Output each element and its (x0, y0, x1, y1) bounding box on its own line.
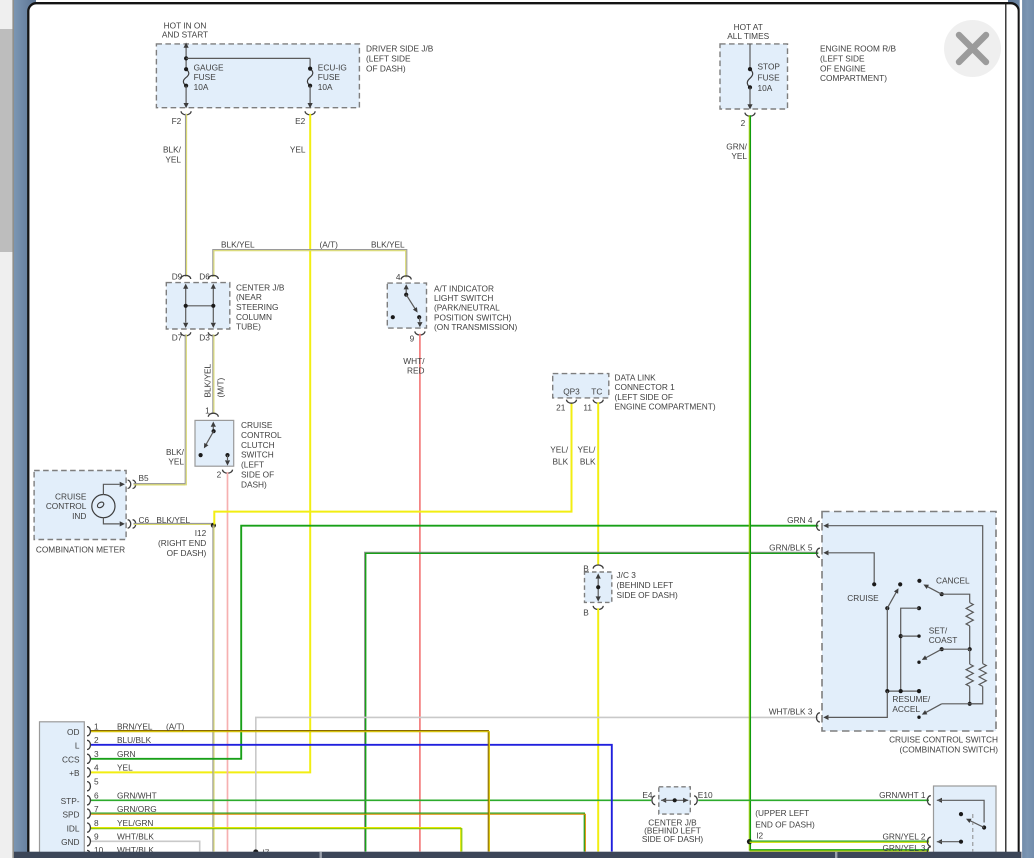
svg-text:GRN 4: GRN 4 (787, 515, 813, 525)
connector F2 (181, 111, 191, 115)
wire pin3 internal riser (828, 691, 888, 717)
svg-text:QP3: QP3 (563, 386, 580, 396)
wire BLK/YEL C6 to I12 (134, 522, 214, 524)
svg-text:ALL TIMES: ALL TIMES (727, 31, 769, 41)
browser scrollbar track (0, 0, 13, 858)
connector pin 4 cruise switch (816, 521, 819, 530)
junction block DRIVER SIDE J/B (156, 44, 359, 108)
fuse STOP FUSE 10A (749, 44, 751, 69)
svg-text:GAUGE: GAUGE (194, 62, 224, 72)
connector pin 2 clutch switch (223, 470, 233, 474)
connector ECM pin 1 (87, 727, 90, 736)
connector DATA LINK CONNECTOR 1 (553, 374, 609, 398)
resistor R2 (966, 664, 973, 686)
wire YEL/BLK J/C3 to bottom (597, 608, 599, 851)
svg-text:E10: E10 (698, 790, 713, 800)
svg-text:2: 2 (94, 735, 99, 745)
svg-text:DATA LINK: DATA LINK (615, 372, 657, 382)
svg-text:SET/: SET/ (929, 625, 948, 635)
switch A/T INDICATOR LIGHT SWITCH (387, 283, 426, 328)
wire internal E4 to E10 (661, 799, 688, 801)
wire internal pin5 to cruise contact (828, 553, 875, 585)
svg-text:TC: TC (591, 386, 602, 396)
svg-text:(A/T): (A/T) (166, 721, 185, 731)
wire BLK/YEL D7 to B5 (134, 334, 186, 483)
wire BLK/YEL B5 to F2 wire (134, 483, 186, 485)
connector E2 (305, 111, 315, 115)
wire R2 bottom row (969, 686, 971, 703)
connector pin 3 cruise switch (816, 713, 819, 722)
svg-text:4: 4 (396, 272, 401, 282)
svg-text:OF DASH): OF DASH) (167, 548, 207, 558)
svg-text:B: B (583, 607, 589, 617)
svg-text:(COMBINATION SWITCH): (COMBINATION SWITCH) (900, 745, 999, 755)
svg-text:IDL: IDL (67, 823, 80, 833)
wire internal pin1 to switch (937, 800, 984, 822)
svg-text:OD: OD (67, 727, 79, 737)
svg-text:GND: GND (61, 837, 79, 847)
svg-text:GRN: GRN (117, 749, 135, 759)
svg-text:2: 2 (217, 470, 222, 480)
svg-text:CRUISE: CRUISE (241, 420, 273, 430)
wire WHT/BLK pin9 (90, 841, 200, 851)
svg-text:(RIGHT END: (RIGHT END (158, 538, 206, 548)
wire WHT/RED A/T switch to bottom (419, 334, 421, 852)
svg-text:BLK: BLK (580, 456, 596, 466)
svg-text:BLK/YEL: BLK/YEL (371, 239, 405, 249)
meter COMBINATION METER (34, 471, 126, 540)
connector D9 (181, 275, 191, 279)
svg-text:D7: D7 (172, 333, 183, 343)
wire BLK/YEL I12 to bottom (212, 525, 214, 851)
lamp CRUISE CONTROL IND (92, 495, 115, 518)
connector pin 1 right (927, 796, 930, 805)
connector ECM (box) (40, 722, 85, 858)
wire BLK/YEL D6 branch to A/T switch (213, 250, 407, 278)
wire lamp to B5 (103, 484, 119, 495)
svg-text:10A: 10A (194, 82, 209, 92)
svg-text:YEL: YEL (731, 151, 747, 161)
svg-text:COMPARTMENT): COMPARTMENT) (820, 73, 887, 83)
fuse block ENGINE ROOM R/B (720, 44, 788, 109)
divider dashed (972, 814, 974, 852)
svg-text:1: 1 (94, 721, 99, 731)
svg-text:2: 2 (741, 118, 746, 128)
wire GRN/BLK cruise pin5 to bottom (365, 552, 819, 851)
wire GRN pin3 to cruise switch pin4 (90, 526, 818, 759)
svg-text:A/T INDICATOR: A/T INDICATOR (434, 283, 494, 293)
connector pin 2 stop fuse (745, 113, 755, 117)
svg-text:CRUISE: CRUISE (847, 593, 879, 603)
node I2 (747, 839, 752, 844)
svg-text:OF DASH): OF DASH) (366, 63, 406, 73)
switch element CRUISE (885, 606, 889, 610)
wire GRN/WHT pin6 to E4 (90, 799, 651, 801)
svg-text:(PARK/NEUTRAL: (PARK/NEUTRAL (434, 303, 500, 313)
wire bottom contact row (887, 690, 919, 692)
switch CRUISE CONTROL SWITCH (combination switch) (822, 512, 996, 732)
switch CRUISE CONTROL CLUTCH SWITCH (195, 420, 234, 466)
connector B5 (128, 480, 131, 488)
connector ECM pin 9 (87, 837, 90, 846)
fuse GAUGE FUSE 10A (185, 47, 187, 69)
switch element SET/COAST (940, 647, 944, 651)
wire WHT/BLK pin10 (90, 854, 256, 856)
svg-text:(A/T): (A/T) (320, 239, 339, 249)
svg-text:LIGHT SWITCH: LIGHT SWITCH (434, 293, 493, 303)
svg-text:YEL/GRN: YEL/GRN (117, 818, 153, 828)
connector (combination switch harness) (934, 786, 997, 858)
svg-text:ECU-IG: ECU-IG (318, 62, 347, 72)
svg-text:10A: 10A (318, 82, 333, 92)
connector pin 9 A/T switch (415, 331, 425, 335)
junction block CENTER J/B (E4/E10) (659, 787, 691, 814)
svg-text:YEL: YEL (168, 457, 184, 467)
svg-text:(LEFT SIDE: (LEFT SIDE (366, 53, 411, 63)
svg-text:D6: D6 (199, 271, 210, 281)
svg-text:6: 6 (94, 791, 99, 801)
wire internal D9-D7 leg (185, 289, 187, 323)
svg-text:FUSE: FUSE (194, 72, 217, 82)
connector ECM pin 2 (87, 740, 90, 749)
wire WHT/BLK cruise pin3 to I7 (256, 717, 819, 851)
svg-text:GRN/WHT: GRN/WHT (117, 791, 157, 801)
svg-text:GRN/ORG: GRN/ORG (117, 804, 157, 814)
switch element RESUME/ACCEL (925, 704, 942, 713)
svg-text:(UPPER LEFT: (UPPER LEFT (755, 808, 809, 818)
svg-text:(BEHIND LEFT: (BEHIND LEFT (617, 580, 674, 590)
svg-text:STOP: STOP (758, 61, 781, 71)
svg-text:SIDE OF: SIDE OF (241, 470, 274, 480)
svg-text:IND: IND (72, 511, 86, 521)
switch element right connector (982, 825, 986, 829)
svg-text:L: L (75, 741, 80, 751)
wire PNK clutch switch to bottom (227, 472, 229, 852)
left gutter strip (14, 0, 36, 858)
close button (944, 20, 1001, 77)
connector D3 (208, 332, 218, 336)
wire internal D6-D3 leg (212, 289, 214, 323)
node I12 (211, 523, 216, 528)
wire resistor to bottom node (970, 686, 983, 703)
status bar (14, 852, 1022, 858)
svg-text:D9: D9 (172, 271, 183, 281)
svg-text:CRUISE: CRUISE (55, 491, 87, 501)
svg-text:9: 9 (410, 334, 415, 344)
svg-text:COMBINATION METER: COMBINATION METER (36, 545, 125, 555)
svg-text:(LEFT: (LEFT (241, 460, 264, 470)
wire BLK/YEL D3 to clutch switch (212, 334, 214, 413)
svg-text:COAST: COAST (929, 635, 958, 645)
svg-text:YEL/: YEL/ (578, 445, 597, 455)
svg-text:YEL: YEL (165, 154, 181, 164)
svg-text:10A: 10A (758, 83, 773, 93)
browser scrollbar thumb (0, 29, 13, 252)
svg-text:+B: +B (69, 768, 80, 778)
wire BLU/BLK pin2 to bottom (90, 745, 612, 852)
connector pin 4 A/T switch (401, 276, 411, 280)
svg-text:POSITION SWITCH): POSITION SWITCH) (434, 312, 512, 322)
wire BRN/YEL pin1 to bottom (90, 731, 488, 852)
svg-text:E2: E2 (295, 116, 306, 126)
fuse ECU-IG FUSE 10A (309, 58, 311, 68)
connector ECM pin 3 (87, 754, 90, 763)
wire lamp to C6 (103, 518, 119, 524)
connector C6 (128, 520, 131, 528)
svg-text:CONTROL: CONTROL (241, 430, 282, 440)
svg-text:WHT/BLK 3: WHT/BLK 3 (769, 706, 813, 716)
svg-text:RED: RED (407, 366, 425, 376)
wire contact L-path (917, 606, 921, 610)
svg-text:ACCEL: ACCEL (892, 704, 920, 714)
svg-text:GRN/YEL 2: GRN/YEL 2 (882, 832, 925, 842)
svg-text:5: 5 (94, 776, 99, 786)
node I7 (253, 849, 258, 854)
svg-text:STEERING: STEERING (236, 302, 278, 312)
connector ECM pin 8 (87, 823, 90, 832)
svg-text:CENTER J/B: CENTER J/B (236, 282, 285, 292)
svg-text:ENGINE ROOM R/B: ENGINE ROOM R/B (820, 44, 897, 54)
resistor R far-right (979, 664, 986, 687)
svg-text:STP-: STP- (61, 796, 80, 806)
svg-text:1: 1 (205, 405, 210, 415)
inner frame line (1005, 4, 1007, 853)
resistor R1 (966, 603, 973, 626)
svg-text:(M/T): (M/T) (216, 377, 226, 397)
connector pin 1 clutch switch (208, 413, 218, 417)
wire link gauge to ecu-ig (186, 57, 310, 59)
wire GRN/ORG pin7 to bottom (90, 813, 584, 851)
svg-text:SIDE OF DASH): SIDE OF DASH) (642, 834, 704, 844)
svg-text:8: 8 (94, 818, 99, 828)
svg-text:BLK/: BLK/ (166, 447, 185, 457)
svg-text:F2: F2 (172, 116, 182, 126)
svg-text:ENGINE COMPARTMENT): ENGINE COMPARTMENT) (615, 402, 716, 412)
svg-text:GRN/: GRN/ (726, 141, 747, 151)
connector pin 11 (593, 400, 603, 404)
svg-text:3: 3 (94, 749, 99, 759)
svg-text:D3: D3 (199, 333, 210, 343)
wire BLK/YEL F2 to D9 (185, 114, 187, 277)
svg-text:(ON TRANSMISSION): (ON TRANSMISSION) (434, 322, 518, 332)
svg-text:COLUMN: COLUMN (236, 312, 272, 322)
junction block CENTER J/B (near steering column tube) (166, 283, 230, 329)
connector E10 (683, 798, 688, 803)
wire internal pin2 (937, 841, 961, 843)
svg-text:11: 11 (583, 402, 592, 412)
svg-text:BLK/YEL: BLK/YEL (203, 363, 213, 397)
switch element A/T (404, 284, 409, 289)
wire internal pin4 to resistor chain (828, 526, 983, 664)
svg-text:CCS: CCS (62, 755, 80, 765)
svg-text:AND START: AND START (162, 30, 208, 40)
connector ECM pin 6 (87, 796, 90, 805)
connector pin 5 cruise switch (816, 548, 819, 557)
right white sliver (1020, 0, 1022, 858)
wire GRN/YEL stop fuse to I2 (748, 115, 750, 851)
svg-text:GRN/BLK 5: GRN/BLK 5 (769, 542, 813, 552)
svg-text:I12: I12 (195, 528, 207, 538)
svg-text:21: 21 (556, 402, 566, 412)
svg-text:(LEFT SIDE: (LEFT SIDE (820, 53, 865, 63)
wire GRN/YEL I2 to connector pin 2 (750, 840, 930, 842)
svg-text:SPD: SPD (62, 809, 79, 819)
wire YEL/BLK pin 11 to J/C3 (597, 402, 599, 565)
svg-text:GRN/YEL 3: GRN/YEL 3 (882, 843, 925, 853)
svg-text:BLU/BLK: BLU/BLK (117, 735, 152, 745)
svg-text:9: 9 (94, 832, 99, 842)
svg-text:BRN/YEL: BRN/YEL (117, 721, 153, 731)
svg-text:DASH): DASH) (241, 479, 267, 489)
wire YEL/GRN pin8 to bottom (90, 828, 461, 852)
svg-text:YEL: YEL (117, 763, 133, 773)
right gutter strip (1008, 0, 1034, 858)
svg-text:GRN/WHT 1: GRN/WHT 1 (879, 790, 926, 800)
wire R1 to set/coast node (969, 626, 971, 649)
connector pin 21 (567, 400, 577, 404)
svg-text:I2: I2 (756, 830, 763, 840)
wire cruise pivot down (886, 608, 888, 691)
svg-text:SIDE OF DASH): SIDE OF DASH) (617, 590, 679, 600)
svg-text:CLUTCH: CLUTCH (241, 440, 275, 450)
wire GRN/WHT E10 to connector pin 1 (698, 799, 929, 801)
svg-text:END OF DASH): END OF DASH) (755, 819, 815, 829)
wire cancel pivot to resistor R1 (942, 594, 970, 602)
wire YEL I12 to QP3 (214, 403, 571, 525)
svg-text:BLK/YEL: BLK/YEL (221, 239, 255, 249)
svg-text:DRIVER SIDE J/B: DRIVER SIDE J/B (366, 44, 434, 54)
svg-text:SWITCH: SWITCH (241, 450, 274, 460)
svg-text:7: 7 (94, 804, 99, 814)
wire YEL E2 to pin +B (90, 114, 310, 773)
connector D7 (181, 332, 191, 336)
connector ECM pin 7 (87, 809, 90, 818)
svg-text:BLK/: BLK/ (163, 145, 182, 155)
switch element clutch (211, 422, 216, 427)
svg-text:WHT/BLK: WHT/BLK (117, 832, 154, 842)
connector D6 (208, 275, 218, 279)
svg-text:(LEFT SIDE OF: (LEFT SIDE OF (615, 392, 673, 402)
wire GRN/YEL to connector pin 3 (750, 849, 930, 851)
svg-text:BLK/YEL: BLK/YEL (156, 515, 190, 525)
svg-text:YEL: YEL (290, 145, 306, 155)
svg-text:(NEAR: (NEAR (236, 292, 262, 302)
svg-text:CANCEL: CANCEL (936, 575, 970, 585)
svg-text:4: 4 (94, 763, 99, 773)
connector pin 3 right (927, 847, 930, 856)
svg-text:B5: B5 (139, 473, 150, 483)
svg-text:BLK: BLK (553, 456, 569, 466)
switch element CANCEL (917, 579, 921, 583)
svg-text:CONNECTOR 1: CONNECTOR 1 (615, 382, 676, 392)
svg-text:FUSE: FUSE (758, 72, 781, 82)
svg-text:WHT/: WHT/ (403, 356, 425, 366)
connector ECM pin 10 (87, 850, 90, 858)
wire internal crossbar with junction dots (186, 305, 214, 307)
connector ECM pin 5 (87, 782, 90, 791)
connector ECM pin 4 (87, 768, 90, 777)
svg-text:RESUME/: RESUME/ (892, 694, 930, 704)
svg-text:TUBE): TUBE) (236, 322, 261, 332)
connector pin 2 right (927, 837, 930, 846)
svg-text:FUSE: FUSE (318, 72, 341, 82)
svg-text:CONTROL: CONTROL (46, 501, 87, 511)
svg-text:YEL/: YEL/ (550, 445, 569, 455)
svg-text:CRUISE CONTROL SWITCH: CRUISE CONTROL SWITCH (889, 735, 998, 745)
junction dot E4/E10 (673, 798, 677, 802)
svg-text:J/C 3: J/C 3 (617, 570, 637, 580)
svg-text:OF ENGINE: OF ENGINE (820, 63, 866, 73)
svg-text:E4: E4 (642, 790, 653, 800)
